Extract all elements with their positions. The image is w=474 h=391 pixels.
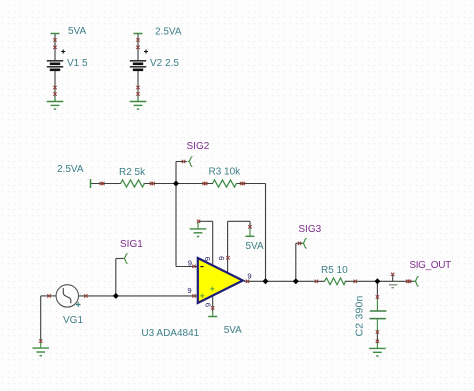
- svg-text:R2 5k: R2 5k: [119, 167, 146, 178]
- svg-text:V1 5: V1 5: [67, 58, 88, 69]
- svg-text:SIG_OUT: SIG_OUT: [409, 260, 451, 271]
- svg-text:SIG3: SIG3: [298, 224, 321, 235]
- svg-text:9: 9: [187, 286, 191, 295]
- svg-text:U3 ADA4841: U3 ADA4841: [141, 328, 199, 339]
- svg-text:9: 9: [203, 257, 212, 261]
- svg-text:5VA: 5VA: [224, 325, 242, 336]
- svg-text:V2 2.5: V2 2.5: [150, 58, 179, 69]
- svg-text:2.5VA: 2.5VA: [57, 164, 84, 175]
- svg-text:R3 10k: R3 10k: [209, 167, 242, 178]
- svg-text:9: 9: [188, 258, 192, 267]
- svg-text:VG1: VG1: [63, 315, 83, 326]
- svg-text:9: 9: [204, 303, 213, 307]
- svg-text:5VA: 5VA: [246, 241, 264, 252]
- svg-text:9: 9: [247, 272, 251, 281]
- svg-text:C2 390n: C2 390n: [354, 295, 366, 336]
- svg-text:SIG2: SIG2: [187, 141, 210, 152]
- svg-text:9: 9: [217, 256, 226, 260]
- svg-text:SIG1: SIG1: [120, 239, 143, 250]
- svg-text:2.5VA: 2.5VA: [155, 27, 182, 38]
- svg-text:R5 10: R5 10: [321, 265, 348, 276]
- svg-text:5VA: 5VA: [68, 26, 86, 37]
